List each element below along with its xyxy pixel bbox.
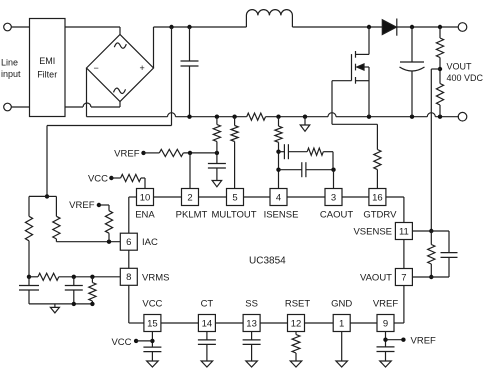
- return rail with hops: [87, 116, 168, 118]
- node isense comp upper: [276, 150, 280, 154]
- current comp resistor: [307, 148, 323, 155]
- node pklmt cap junction: [215, 151, 219, 155]
- svg-text:GTDRV: GTDRV: [363, 210, 397, 221]
- svg-text:12: 12: [291, 318, 302, 329]
- wire multout resistor to pin 5: [234, 142, 236, 189]
- IC outline right edge segment: [403, 240, 405, 269]
- node return rail isense: [276, 115, 280, 119]
- pin 13 SS: [243, 315, 260, 332]
- pin 1 GND: [333, 315, 350, 332]
- svg-text:VREF: VREF: [411, 336, 437, 347]
- svg-text:15: 15: [147, 318, 158, 329]
- svg-text:VREF: VREF: [373, 299, 399, 310]
- wire pin 1 gnd: [341, 332, 343, 362]
- IC outline bottom right corner: [403, 286, 405, 324]
- vcc bypass capacitor: [143, 346, 161, 348]
- svg-text:RSET: RSET: [285, 299, 311, 310]
- node MOSFET drain: [367, 25, 371, 29]
- pin 4 ISENSE: [270, 189, 287, 206]
- pklmt filter capacitor: [216, 153, 218, 164]
- wire node to PKLMT pin: [189, 153, 191, 189]
- node VREF iac dot: [97, 203, 101, 207]
- node iac vref bias: [107, 240, 111, 244]
- ground pklmt cap: [212, 181, 222, 187]
- node vcc bypass: [150, 339, 154, 343]
- wire pklmt resistor to pin 2 node: [183, 152, 217, 154]
- svg-text:−: −: [94, 63, 99, 73]
- IC outline bottom left corner: [129, 322, 145, 324]
- current sense resistor: [247, 113, 266, 120]
- node isense comp lower: [276, 168, 280, 172]
- pklmt divider resistor A: [216, 117, 218, 125]
- svg-text:3: 3: [331, 192, 336, 203]
- wire split right: [47, 195, 56, 197]
- wire pin 9 to vref cap: [385, 332, 387, 347]
- svg-text:6: 6: [126, 237, 131, 248]
- svg-text:16: 16: [372, 192, 383, 203]
- svg-text:10: 10: [140, 192, 151, 203]
- pin 5 MULTOUT: [227, 189, 244, 206]
- svg-text:VSENSE: VSENSE: [353, 227, 392, 238]
- voltage comp resistor: [430, 231, 432, 245]
- svg-text:ISENSE: ISENSE: [264, 210, 299, 221]
- node VCC ena dot: [109, 176, 113, 180]
- node caout junction: [331, 168, 335, 172]
- terminal line input top: [4, 23, 12, 31]
- node return rail output divider bottom: [438, 115, 442, 119]
- wire vrms divider to vrms node: [28, 241, 30, 277]
- svg-text:CT: CT: [201, 299, 214, 310]
- node return rail filter cap: [187, 115, 191, 119]
- wire pin 15 to vcc cap: [151, 332, 153, 348]
- node return rail pklmt divider A: [215, 115, 219, 119]
- MOSFET Q1: [368, 27, 370, 54]
- ss soft start capacitor: [243, 339, 261, 341]
- node IAC feed split: [45, 194, 49, 198]
- ground vref cap: [380, 361, 392, 367]
- svg-text:Filter: Filter: [37, 70, 57, 80]
- node return rail output cap bottom: [410, 115, 414, 119]
- wire pin 12 to rset resistor: [295, 332, 297, 335]
- vref bypass capacitor: [377, 346, 395, 348]
- wire ena resistor to pin 10: [141, 177, 145, 179]
- svg-text:ENA: ENA: [135, 210, 155, 221]
- wire split left: [29, 195, 47, 197]
- ground return rail: [304, 117, 306, 125]
- svg-text:14: 14: [202, 318, 213, 329]
- wire pin 11 to comp network: [412, 230, 449, 232]
- vrms filter resistor horizontal: [38, 273, 59, 280]
- terminal VOUT+: [458, 23, 467, 32]
- current comp capacitor lower: [279, 169, 302, 171]
- svg-text:8: 8: [126, 272, 131, 283]
- vrms filter capacitor 1: [28, 277, 30, 286]
- svg-text:1: 1: [339, 318, 344, 329]
- node return rail ground: [303, 115, 307, 119]
- return rail right with vsense hop: [426, 116, 428, 118]
- pin 6 IAC: [120, 233, 137, 250]
- boost inductor: [246, 10, 292, 27]
- ena resistor: [121, 174, 141, 181]
- node vref bypass: [383, 338, 387, 342]
- iac input resistor: [53, 216, 60, 239]
- svg-text:5: 5: [232, 192, 237, 203]
- wire VREF to iac bias resistor: [99, 204, 109, 206]
- pin 2 PKLMT: [182, 189, 199, 206]
- IC outline top left corner: [129, 196, 137, 198]
- wire gate drive: [332, 80, 352, 82]
- svg-text:11: 11: [399, 226, 409, 237]
- return rail mid with gate hop: [266, 116, 329, 118]
- wire bridge positive to top rail: [153, 27, 155, 68]
- input filter capacitor: [189, 27, 191, 61]
- svg-text:7: 7: [401, 272, 406, 283]
- svg-text:VAOUT: VAOUT: [360, 273, 392, 284]
- pin 3 CAOUT: [325, 189, 342, 206]
- svg-text:400 VDC: 400 VDC: [447, 73, 484, 83]
- node top rail filter cap: [187, 25, 191, 29]
- pin 15 VCC: [144, 315, 161, 332]
- node VCC bottom dot: [134, 339, 138, 343]
- svg-text:input: input: [1, 69, 21, 79]
- pin 14 CT: [198, 315, 215, 332]
- svg-text:VREF: VREF: [69, 200, 95, 211]
- wire VSENSE feedback: [431, 68, 440, 70]
- isense input resistor: [278, 117, 280, 126]
- wire VREF to pklmt resistor: [144, 152, 160, 154]
- terminal VOUT-: [458, 112, 467, 121]
- vrms divider resistor upper: [25, 216, 32, 241]
- wire bridge negative to return rail: [86, 68, 88, 117]
- current comp capacitor upper: [279, 151, 285, 153]
- svg-text:9: 9: [383, 318, 388, 329]
- ground ct cap: [201, 361, 213, 367]
- node vrms filter right: [90, 275, 94, 279]
- iac bias resistor: [105, 211, 112, 234]
- top rail from bridge to inductor: [154, 26, 247, 28]
- wire VCC dot to pin 15 branch: [136, 340, 152, 342]
- IC outline top edge segments: [154, 196, 182, 198]
- svg-text:CAOUT: CAOUT: [320, 210, 353, 221]
- svg-text:VOUT: VOUT: [447, 62, 473, 72]
- gate drive resistor: [374, 150, 381, 170]
- wire pin 14 to ct cap: [206, 332, 208, 340]
- ground pin 1: [336, 361, 348, 367]
- wire EMI filter top output to bridge AC+: [65, 26, 120, 28]
- svg-text:UC3854: UC3854: [249, 256, 286, 267]
- node top rail IAC feed: [169, 25, 173, 29]
- wire iac resistor to pin 6: [55, 239, 57, 242]
- ground vrms filter: [54, 304, 56, 308]
- bridge rectifier: [87, 35, 154, 102]
- bridge AC squiggle top: [114, 43, 126, 48]
- node VREF pklmt dot: [141, 151, 145, 155]
- wire vref tap: [386, 339, 404, 341]
- svg-text:GND: GND: [331, 299, 352, 310]
- svg-text:VCC: VCC: [142, 299, 162, 310]
- svg-text:PKLMT: PKLMT: [176, 210, 208, 221]
- bridge AC squiggle bottom: [114, 88, 126, 93]
- vrms filter resistor vertical: [91, 277, 93, 283]
- node vsense pin junction: [429, 229, 433, 233]
- node output cap top: [410, 25, 414, 29]
- vrms filter capacitor 2: [73, 277, 75, 286]
- svg-text:SS: SS: [245, 299, 258, 310]
- node output divider top: [438, 25, 442, 29]
- pklmt program resistor: [159, 149, 183, 156]
- node vaout junction: [429, 275, 433, 279]
- node return rail multout resistor: [232, 115, 236, 119]
- node vrms bottom right: [90, 302, 94, 306]
- EMI filter block: [30, 19, 66, 117]
- svg-text:+: +: [140, 63, 145, 73]
- node return rail MOSFET source: [367, 115, 371, 119]
- output divider resistor lower: [436, 84, 443, 106]
- node output divider mid: [438, 67, 442, 71]
- node vrms filter left: [27, 275, 31, 279]
- pin 16 GTDRV: [369, 189, 386, 206]
- wire vrms filter bottom: [29, 303, 92, 305]
- svg-text:Line: Line: [1, 58, 18, 68]
- IC outline bottom edge segments: [350, 322, 378, 324]
- ground ss cap: [246, 361, 258, 367]
- wire pin 13 to ss cap: [251, 332, 253, 340]
- node vrms filter mid: [72, 275, 76, 279]
- pin 7 VAOUT: [395, 269, 412, 286]
- svg-text:13: 13: [246, 318, 257, 329]
- output divider resistor upper: [439, 27, 441, 38]
- pin 11 VSENSE: [395, 223, 412, 240]
- node pklmt pin wire: [188, 151, 192, 155]
- svg-text:EMI: EMI: [39, 56, 55, 66]
- wire EMI filter bottom output to bridge AC- with hop: [65, 106, 83, 108]
- wire pin 7 to comp network: [412, 276, 449, 278]
- wire VCC to ena resistor: [111, 177, 120, 179]
- svg-text:2: 2: [187, 192, 192, 203]
- ground vcc cap: [147, 361, 159, 367]
- top rail from diode to output terminal: [397, 26, 459, 28]
- voltage comp capacitor: [441, 252, 458, 254]
- node vrms bottom mid: [72, 302, 76, 306]
- svg-text:VREF: VREF: [114, 148, 140, 159]
- IC outline top right corner: [386, 196, 404, 198]
- svg-text:VCC: VCC: [88, 173, 108, 184]
- svg-text:VRMS: VRMS: [142, 272, 169, 283]
- svg-text:IAC: IAC: [142, 237, 158, 248]
- pin 10 ENA: [137, 189, 154, 206]
- wire gate resistor to GTDRV pin: [376, 170, 378, 189]
- wire top terminal to EMI filter: [11, 26, 29, 28]
- svg-text:VCC: VCC: [111, 337, 131, 348]
- svg-text:4: 4: [276, 192, 281, 203]
- wire bottom terminal to EMI filter: [11, 106, 29, 108]
- wire IAC feed from top rail down left side: [171, 27, 173, 126]
- ct timing capacitor: [198, 339, 216, 341]
- ground rset: [290, 361, 302, 367]
- wire comp resistor to caout node: [323, 151, 333, 153]
- multout feed resistor: [234, 117, 236, 126]
- terminal line input bottom: [4, 103, 12, 111]
- top rail from inductor to diode: [292, 26, 382, 28]
- pin 9 VREF: [377, 315, 394, 332]
- boost diode: [382, 20, 396, 35]
- node VREF output dot: [401, 338, 405, 342]
- svg-text:MULTOUT: MULTOUT: [211, 210, 256, 221]
- output capacitor: [411, 27, 413, 62]
- rset resistor: [292, 335, 300, 354]
- IC outline left edge segment: [128, 250, 130, 268]
- wire comp cap to comp resistor: [288, 151, 307, 153]
- pin 12 RSET: [288, 315, 305, 332]
- pin 8 VRMS: [120, 268, 137, 285]
- wire caout node to pin 3: [333, 170, 335, 189]
